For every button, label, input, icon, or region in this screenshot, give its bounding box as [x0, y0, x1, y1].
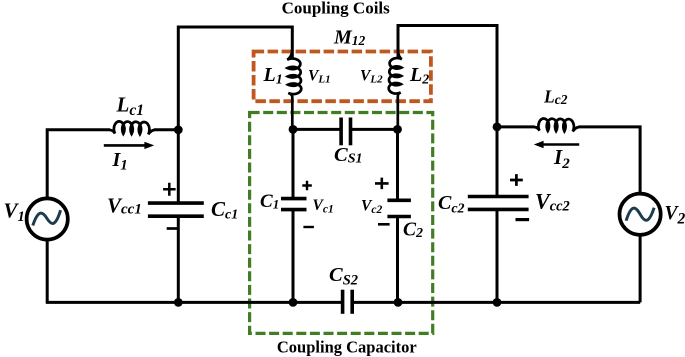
capacitor Cc1 — [148, 203, 204, 216]
label Cc2 — [438, 192, 465, 217]
wire left vertical upper — [177, 130, 180, 203]
inductor L2 — [389, 50, 402, 130]
label - Cc1 — [167, 227, 180, 230]
node inner junction right — [393, 125, 402, 134]
node left junction — [174, 125, 183, 134]
label Coupling Coils — [282, 0, 391, 18]
label CS2 — [329, 264, 358, 289]
wire V2 bottom — [639, 235, 642, 303]
label L2 — [409, 64, 429, 88]
wire C1 branch lower — [292, 210, 295, 303]
label Cc1 — [211, 197, 238, 223]
node inner junction left — [289, 125, 298, 134]
label Vcc2 — [535, 189, 570, 215]
wire inner top rail left — [293, 128, 341, 131]
wire Lc2 to V2 branch — [579, 127, 641, 194]
capacitor CS2 — [343, 290, 353, 314]
label V1 — [4, 199, 25, 225]
label V2 — [665, 203, 685, 228]
node bottom junction 4 — [493, 298, 502, 307]
label Vcc1 — [107, 193, 142, 217]
label Lc1 — [116, 93, 144, 120]
inductor L1 — [287, 50, 301, 129]
wire right vertical upper — [496, 127, 499, 197]
label VL1 — [308, 68, 331, 86]
label C2 — [403, 220, 423, 242]
label L1 — [263, 64, 283, 88]
coupling capacitor box — [250, 113, 433, 334]
label - C1 — [303, 226, 314, 228]
node bottom junction 2 — [289, 298, 298, 307]
node bottom junction 1 — [174, 298, 183, 307]
wire left vertical lower — [177, 216, 180, 302]
label + Cc2 — [510, 174, 523, 186]
capacitor Cc2 — [468, 197, 529, 210]
capacitor CS1 — [341, 118, 350, 146]
label Lc2 — [543, 87, 568, 107]
node bottom junction 3 — [394, 298, 403, 307]
label + C1 — [302, 181, 312, 190]
label - C2 — [378, 223, 390, 226]
coupling coils box — [254, 52, 431, 102]
wire C1 branch upper — [292, 129, 295, 198]
capacitor C2 — [387, 200, 411, 216]
node right junction — [493, 123, 502, 132]
label + Cc1 — [163, 183, 176, 196]
label Coupling Capacitor — [277, 338, 417, 357]
wire C2 branch lower — [396, 217, 399, 303]
inductor Lc1 — [109, 121, 155, 134]
label Vc2 — [361, 198, 382, 216]
label CS1 — [334, 144, 362, 167]
wire bottom rail left — [46, 301, 343, 304]
voltage source V1 — [27, 198, 68, 239]
wire right node to Lc2 — [497, 125, 535, 128]
wire Lc1 to left node — [154, 128, 178, 131]
wire top-left loop — [178, 27, 292, 130]
current arrow I2 — [534, 141, 579, 148]
capacitor C1 — [281, 199, 307, 210]
label Vc1 — [313, 197, 334, 215]
svg-text:Coupling Capacitor: Coupling Capacitor — [277, 338, 417, 357]
wire top-right loop — [398, 26, 497, 127]
current arrow I1 — [104, 142, 154, 149]
wire inner top rail right — [351, 128, 398, 131]
wire C2 branch upper — [396, 129, 399, 200]
label M12 — [333, 27, 366, 49]
label I2 — [553, 145, 570, 172]
voltage source V2 — [620, 194, 661, 235]
wire bottom rail right — [352, 301, 640, 304]
svg-text:Coupling Coils: Coupling Coils — [282, 0, 391, 18]
label C1 — [260, 191, 279, 212]
label - Cc2 — [516, 218, 530, 221]
wire V1 top to Lc1 — [47, 130, 110, 199]
wire V1 bottom — [46, 240, 49, 303]
inductor Lc2 — [534, 118, 580, 131]
label + C2 — [375, 178, 389, 190]
label I1 — [112, 149, 128, 174]
label VL2 — [360, 68, 383, 86]
wire right vertical lower — [496, 209, 499, 302]
